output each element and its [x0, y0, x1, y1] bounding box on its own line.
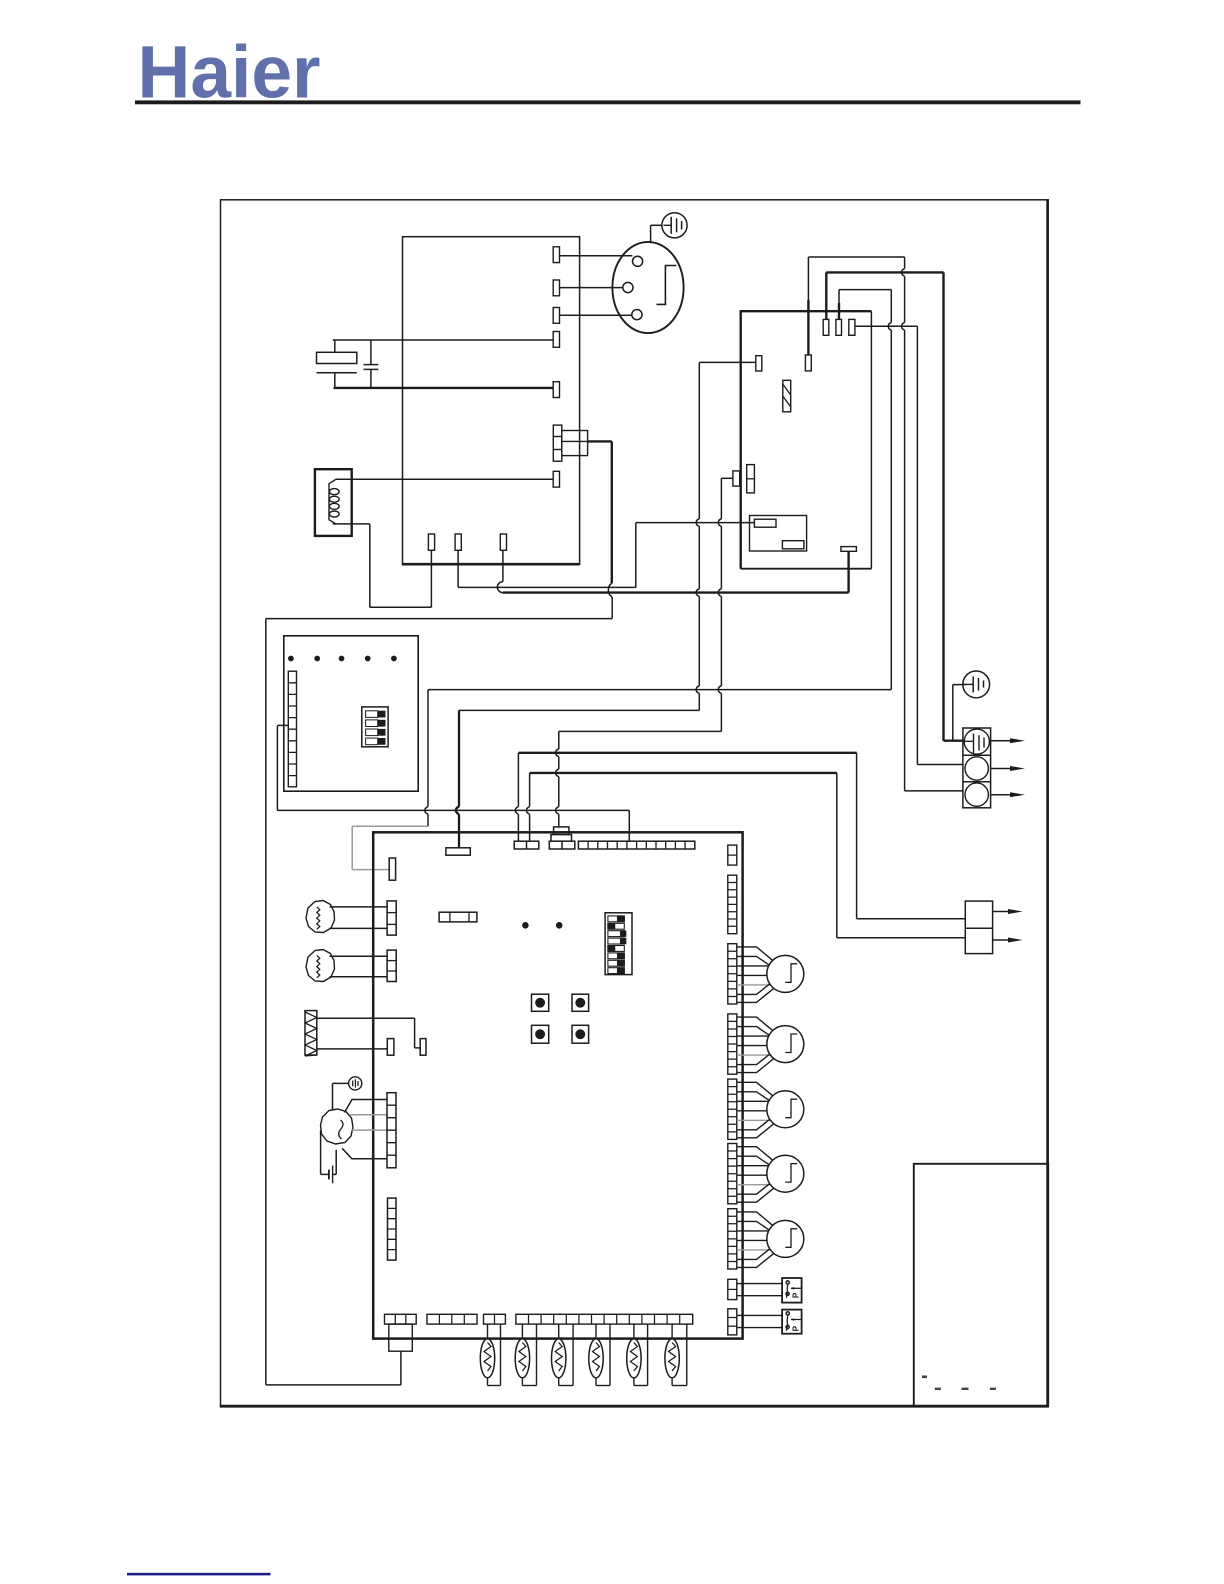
- svg-text:P: P: [790, 1292, 800, 1298]
- svg-text:P: P: [790, 1326, 800, 1332]
